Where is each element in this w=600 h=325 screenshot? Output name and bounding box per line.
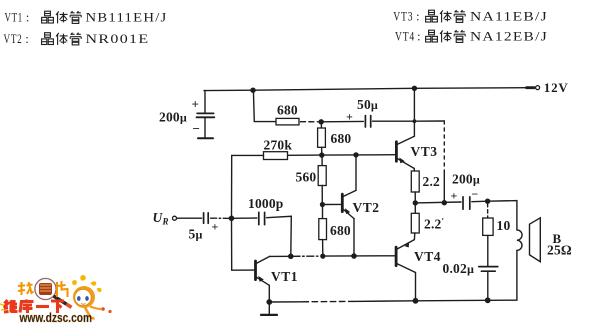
svg-text:1000p: 1000p: [248, 196, 284, 211]
watermark: 维库一下 red text: [4, 300, 64, 314]
capacitor C 200µ power filter: [197, 91, 215, 138]
wire: 50µ right plate across to corner: [373, 120, 445, 122]
svg-text:www.dzsc.com: www.dzsc.com: [19, 310, 92, 325]
wire: bootstrap drop lower solid part: [443, 172, 445, 203]
svg-text:12V: 12V: [544, 80, 569, 95]
svg-text:+: +: [346, 110, 353, 124]
node: small junction where VT3 collector line crosses: [413, 119, 417, 123]
svg-text:+: +: [192, 97, 200, 112]
svg-text:VT4: VT4: [414, 249, 441, 264]
svg-text:680: 680: [331, 131, 352, 146]
wire: input lead: [177, 217, 202, 219]
wire: input node down to VT1 base corner: [232, 218, 255, 270]
ground: 200µ negative terminal bar: [198, 137, 213, 139]
node: output midpoint junction: [413, 200, 418, 205]
wire: dash-dot section of driver bus: [293, 255, 320, 257]
node: 680 bottom on VT1 collector line: [320, 254, 325, 259]
svg-text:680: 680: [330, 223, 351, 238]
speaker B cone: [530, 218, 541, 262]
capacitor C 1000p: [259, 212, 265, 224]
node: junction rail / VT3 collector: [412, 86, 417, 91]
wire: bottom rail right: [352, 300, 488, 301]
svg-text:−: −: [472, 187, 479, 201]
node: output node (Zobel / speaker): [485, 199, 490, 204]
wire: 200µ to output node: [472, 200, 488, 203]
ground: symbol below VT1 emitter: [261, 302, 277, 315]
wire: output midpoint to bootstrap corner and 200µ: [415, 201, 461, 204]
svg-text:+: +: [451, 189, 458, 203]
wire: 1000p right, corner down to VT1 collector line: [267, 216, 292, 256]
wire: dashed output node to 10 ohm: [487, 204, 489, 219]
svg-text:270k: 270k: [264, 137, 293, 152]
svg-text:−: −: [193, 121, 201, 136]
wire: rail junction down to 680 feed resistor: [253, 90, 276, 121]
resistor R 10 (Zobel): [483, 218, 493, 266]
svg-text:200µ: 200µ: [452, 171, 480, 186]
node C: VT2 base node: [320, 202, 325, 207]
watermark: white backdrop of pasted logo image: [0, 268, 118, 325]
svg-text:VT4: VT4: [395, 29, 415, 44]
wire: driver bus to VT2 emitter and VT4 base: [323, 255, 396, 257]
node: Zobel bottom junction: [485, 297, 491, 303]
wire: bottom rail dashed section: [303, 300, 352, 302]
label VT2 type: VT2: 晶体管 NR001E: [4, 31, 150, 46]
svg-text:25Ω: 25Ω: [547, 243, 572, 258]
transistor VT2: [342, 155, 356, 256]
svg-text:NB111EH/J: NB111EH/J: [86, 10, 168, 25]
node: VT1 emitter / ground junction: [266, 299, 272, 305]
watermark: sparkle ticks left of red text: [0, 304, 6, 310]
node: VT2 emitter junction: [351, 253, 357, 259]
svg-text:VT3: VT3: [393, 9, 413, 24]
label VT1 type: VT1: 晶体管 NB111EH/J: [5, 10, 168, 25]
capacitor C 0.02µ (Zobel): [479, 267, 498, 301]
watermark: 片 character (orange): [57, 281, 68, 297]
wire: 270k left to corner and down to input node: [232, 155, 264, 218]
wire: speaker column down to bottom rail: [488, 250, 517, 300]
capacitor C 50µ bootstrap: [365, 116, 370, 127]
svg-text:200µ: 200µ: [159, 109, 187, 124]
svg-text:NR001E: NR001E: [86, 31, 150, 46]
svg-text::: :: [25, 31, 30, 46]
wire: bias line left to 270k: [288, 154, 322, 156]
wire: bottom rail left solid: [269, 301, 303, 303]
resistor R 560: [318, 155, 326, 204]
svg-text:VT1: VT1: [271, 269, 298, 284]
terminal: input U_R open circle: [173, 216, 177, 220]
resistor R 680 (horizontal, feed): [276, 118, 299, 125]
label VT4 type: VT4: 晶体管 NA12EB/J: [395, 29, 548, 44]
inductor: speaker voice coil bumps: [517, 230, 522, 251]
transistor VT1: [256, 256, 270, 302]
wire: bias line right to VT2 collector tap and VT3 base: [322, 154, 397, 156]
node: 1000p drop junction: [288, 253, 294, 259]
wire: VT2 base lead: [322, 203, 341, 205]
capacitor C 200µ output coupling: [463, 197, 470, 209]
resistor R 270k feedback: [264, 152, 288, 160]
wire: thick stub at 12V terminal: [527, 86, 535, 89]
wire: dash-dot 5µ to input node: [211, 217, 229, 219]
node: input node junction: [229, 216, 235, 222]
svg-text:VT3: VT3: [411, 144, 438, 159]
svg-text:+: +: [212, 220, 219, 234]
wire: +12V top supply rail: [204, 88, 527, 91]
node: VT2 collector tap: [353, 152, 358, 157]
wire: input node to 1000p: [232, 217, 257, 219]
resistor R 680 (vertical, upper bias): [318, 122, 326, 155]
watermark: 找 character (orange): [18, 282, 34, 295]
svg-text:560: 560: [296, 170, 317, 185]
svg-text:NA11EB/J: NA11EB/J: [470, 9, 548, 24]
svg-text:50µ: 50µ: [357, 97, 378, 112]
svg-text:2.2: 2.2: [423, 174, 441, 189]
node B: bias node 680/270k/560/VT3 base: [319, 152, 324, 157]
resistor R 2.2' (lower emitter): [411, 203, 419, 240]
watermark: mascot (orange robot): [72, 275, 112, 318]
svg-text:680: 680: [277, 103, 298, 118]
node A: bootstrap node junction: [319, 119, 324, 124]
node: VT4 emitter junction: [413, 298, 419, 304]
svg-text:2.2': 2.2': [424, 217, 444, 232]
node: bootstrap joins output line: [442, 200, 447, 205]
resistor R 2.2 (upper emitter): [411, 171, 419, 203]
svg-text::: :: [417, 29, 422, 44]
svg-text:5µ: 5µ: [189, 227, 203, 242]
transistor VT4: [396, 240, 415, 301]
svg-text:0.02µ: 0.02µ: [443, 261, 475, 276]
svg-text::: :: [416, 9, 421, 24]
resistor R 680 (vertical, lower bias): [319, 205, 327, 257]
wire: node A to 50µ capacitor: [321, 120, 363, 122]
svg-text:VT1: VT1: [5, 10, 24, 25]
wire: dashed bootstrap drop: [443, 121, 445, 172]
label VT3 type: VT3: 晶体管 NA11EB/J: [393, 9, 548, 24]
wire: dashed segment 680 to node A: [301, 121, 319, 123]
svg-text:NA12EB/J: NA12EB/J: [470, 29, 548, 44]
terminal: 12V open circle: [536, 86, 540, 90]
node: junction rail / filter branch: [250, 88, 255, 93]
capacitor C 5µ input coupling: [204, 213, 209, 223]
transistor VT3: [396, 88, 414, 171]
wire: output node to speaker: [488, 201, 517, 230]
svg-text:10: 10: [497, 218, 511, 233]
wire: VT1 collector line (driver bus): [270, 255, 293, 257]
svg-text:VT2: VT2: [4, 31, 23, 46]
watermark: magnifier circle with chip: [35, 278, 72, 307]
svg-text::: :: [26, 10, 31, 25]
svg-text:VT2: VT2: [353, 200, 380, 215]
